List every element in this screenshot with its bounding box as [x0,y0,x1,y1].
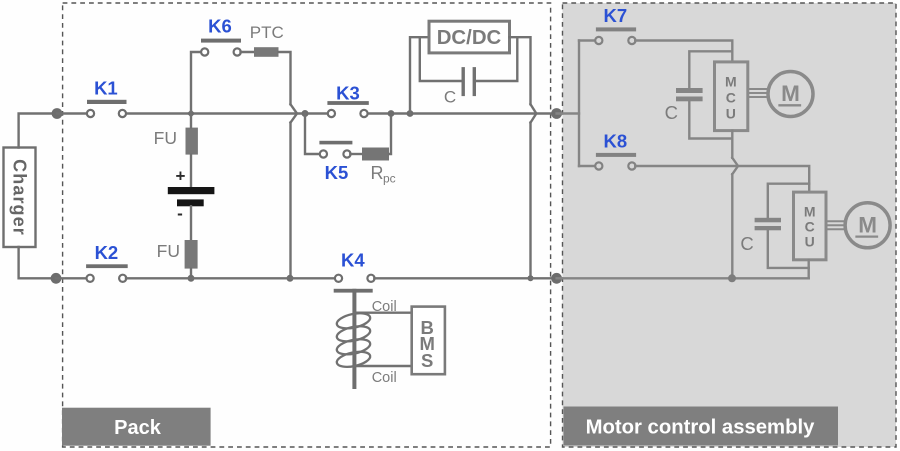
wire FU1 to battery [190,155,192,187]
contactor K6 [201,16,241,56]
svg-text:M: M [781,81,800,106]
svg-text:DC/DC: DC/DC [437,27,502,49]
svg-text:M: M [804,204,816,220]
svg-text:K7: K7 [603,5,627,26]
contactor K4 [335,250,375,282]
svg-text:U: U [726,106,736,122]
contactor K4 actuator bar [334,289,373,293]
motor M1 phase wires [748,89,768,97]
wire capacitor C2 bottom branch [768,230,809,268]
fuse FU2 [157,240,198,269]
svg-text:PTC: PTC [250,23,284,42]
wire bottom rail inside assembly [557,277,809,279]
wire DC/DC return to bottom rail [529,123,531,279]
wire top rail: K3 to border node [367,112,552,114]
svg-text:Motor control assembly: Motor control assembly [586,417,815,439]
wire capacitor C1 bottom branch [689,101,732,138]
Motor control assembly boundary (shaded region, dashed border) [563,3,897,447]
node K5 branch top rail junction [302,110,309,117]
motor controller MCU2 [794,192,827,260]
svg-text:K4: K4 [341,250,365,271]
wire capacitor C2 top branch [768,184,809,218]
svg-text:C: C [740,233,753,254]
svg-text:K2: K2 [95,242,119,263]
svg-text:FU: FU [154,128,177,148]
BMS unit [412,307,445,375]
contactor K5 [319,141,352,183]
svg-text:S: S [421,350,433,371]
wire coil bottom to BMS [354,365,411,367]
motor M2 phase wires [826,221,845,229]
Pack boundary (dashed border) [63,3,551,447]
battery cell pack [168,167,215,224]
wire Rpc up to top rail [389,114,391,155]
contactor K4 actuator shaft [352,289,356,389]
motor controller MCU1 [715,62,748,131]
precharge resistor Rpc [362,148,396,186]
wire K6 to PTC [241,51,255,53]
svg-text:-: - [177,204,183,223]
wire capacitor C1 top branch [689,51,732,88]
svg-text:K8: K8 [603,130,627,151]
wire DC/DC return down [510,37,531,104]
charger box [4,148,36,248]
wire PTC return to bottom rail [289,123,291,279]
wire capacitor C branch left [420,37,462,81]
wire charger positive to top rail [19,114,57,148]
wire crossover hop over top rail [531,104,537,122]
svg-text:K6: K6 [208,16,232,37]
svg-text:R: R [371,163,384,183]
node FU1 / K6 top rail junction [187,110,195,118]
capacitor C1 (MCU1 input) [665,88,703,123]
wire battery to FU2 [190,206,192,240]
contactor K2 [86,242,128,282]
wire top rail: K1 to K3 [126,112,329,114]
wire top rail: charger node to K1 [57,112,87,114]
node pack-to-assembly top interconnect [551,108,562,119]
svg-text:+: + [176,167,186,186]
svg-text:Coil: Coil [372,299,397,315]
contactor K4 coil [335,311,371,370]
wire K7 to MCU1 [635,41,732,62]
wire riser to K8 [579,165,596,167]
contactor K3 [327,83,368,118]
motor M1 [768,72,813,117]
node MCU1 return bottom rail junction [728,274,736,282]
svg-text:C: C [665,102,678,123]
contactor K8 [595,130,636,169]
wire charger negative to bottom rail [19,247,56,278]
Pack section label [62,408,211,446]
svg-text:U: U [805,234,815,250]
wire K5 precharge branch left [305,114,320,155]
wire crossover hop over top rail [291,104,298,122]
node PTC bottom rail junction [287,275,294,282]
svg-text:C: C [805,219,815,235]
Motor control assembly section label [564,407,839,446]
wire MCU2 return to bottom rail [808,260,810,279]
svg-text:Pack: Pack [114,417,162,439]
wire riser to K7 [579,39,596,41]
capacitor C (DC/DC input) [444,69,474,107]
svg-text:K1: K1 [94,77,118,98]
node charger top rail junction [52,108,63,119]
motor M2 [845,203,890,248]
wire FU2 to bottom rail [190,269,192,279]
svg-text:M: M [858,212,877,237]
fuse FU1 [154,128,198,155]
svg-text:M: M [725,74,737,90]
node charger bottom rail junction [51,273,62,284]
wire top rail into assembly [557,112,579,114]
wire bottom rail: charger node to K2 [56,277,87,279]
wire K5 to Rpc [350,153,362,155]
wire bottom rail: K2 to K4 [126,277,335,279]
svg-text:Charger: Charger [9,159,29,236]
svg-text:pc: pc [383,172,396,186]
node DC/DC top rail junction [407,110,414,117]
wire PTC down to crossover [279,52,291,104]
svg-text:K3: K3 [336,83,360,104]
wire K6 branch riser [191,52,202,114]
wire MCU1 return down [731,131,733,158]
capacitor C2 (MCU2 input) [740,218,781,254]
node Rpc top rail junction [388,110,395,117]
wire DC/DC positive feed [410,37,429,113]
wire K8 to MCU2 [635,166,809,192]
svg-text:FU: FU [157,241,180,261]
PTC heater resistor [250,23,284,57]
DC/DC converter box [429,21,510,53]
wire capacitor C branch right [476,37,517,81]
wire coil top to BMS [354,312,411,314]
node DC/DC bottom rail junction [528,275,534,281]
svg-text:C: C [444,88,456,107]
contactor K7 [595,5,636,44]
svg-text:C: C [726,90,736,106]
wire assembly feed riser K7/K8 [578,41,580,167]
svg-text:K5: K5 [325,162,349,183]
node pack-to-assembly bottom interconnect [551,273,562,284]
contactor K1 [87,77,127,117]
node battery bottom rail junction [188,275,195,282]
wire top rail node to FU1 [190,114,192,128]
wire MCU1 return to bottom rail [731,174,733,278]
svg-text:Coil: Coil [372,370,397,386]
wire bottom rail: K4 to border node [374,277,552,279]
wire crossover hop over K8 line [732,158,738,174]
